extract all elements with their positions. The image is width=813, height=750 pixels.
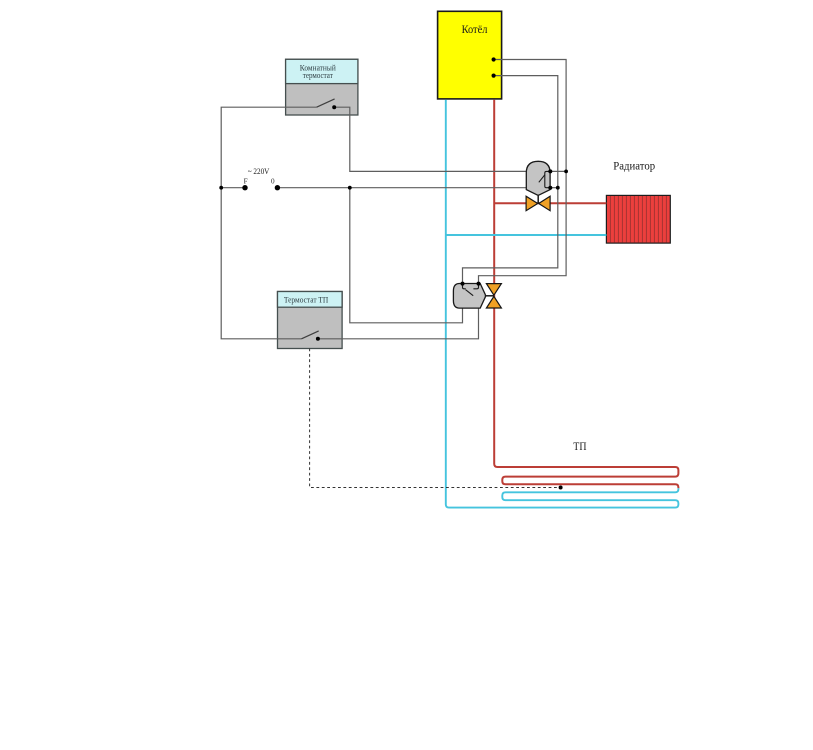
actuator U1 (on radiator valve) (526, 161, 552, 203)
pipe: hot branch to radiator (red) (494, 202, 606, 204)
wire: boiler terminal 1 to actuators (outer run) (479, 60, 567, 284)
TP thermostat (278, 292, 343, 349)
radiator (606, 195, 670, 243)
svg-text:0: 0 (271, 178, 275, 186)
actuator U2 (on floor-heating valve) (453, 282, 494, 309)
junction: U1 lower link / inner run (556, 186, 560, 190)
svg-text:Термостат ТП: Термостат ТП (284, 295, 328, 304)
svg-text:ТП: ТП (573, 441, 586, 453)
terminal F (242, 185, 247, 190)
junction: rail / 220V (219, 186, 223, 190)
svg-text:~ 220V: ~ 220V (248, 167, 270, 176)
switch S1 lever (317, 99, 335, 107)
svg-text:термостат: термостат (303, 71, 333, 80)
switch contact dot S1 (332, 105, 336, 109)
wire: neutral branch down to actuator U2 (350, 188, 463, 323)
valve V1 (radiator) (526, 196, 550, 211)
svg-text:F: F (244, 178, 248, 186)
sensor link: dashed line from TP thermostat to floor sensor (310, 349, 561, 488)
wire: 220V phase stub from rail to F terminal (221, 187, 245, 189)
floor sensor bulb (559, 486, 563, 490)
wire: TP thermostat output to actuator U2 (318, 308, 479, 339)
terminal 0 (275, 185, 280, 190)
boiler (438, 11, 502, 99)
svg-text:Котёл: Котёл (462, 23, 488, 36)
junction: neutral branch (348, 186, 352, 190)
wire: 220V neutral line from 0 terminal to actuator U1 (277, 187, 526, 189)
wire: actuator U1 upper terminal link (550, 170, 566, 172)
switch contact dot S2 (316, 337, 320, 341)
svg-text:Радиатор: Радиатор (613, 159, 655, 173)
switch S2 lever (302, 331, 319, 339)
pipe: cold return branch from radiator (cyan) (446, 234, 607, 236)
wire: actuator U1 lower terminal link (550, 187, 558, 189)
pipe: hot feed from boiler down and floor-heating serpentine (red) (494, 100, 678, 489)
room thermostat (286, 59, 358, 115)
valve V2 (floor heating) (486, 284, 501, 308)
junction: U1 upper link / outer run (564, 170, 568, 174)
wire: room thermostat output to actuator U1 (334, 107, 526, 171)
wire: boiler terminal 2 to actuators (inner run) (463, 76, 558, 284)
pipe: cold return serpentine and riser to boiler (cyan) (446, 100, 679, 508)
boiler terminal dots (492, 57, 496, 61)
wire: left phase rail from room thermostat down to TP thermostat (221, 107, 316, 339)
